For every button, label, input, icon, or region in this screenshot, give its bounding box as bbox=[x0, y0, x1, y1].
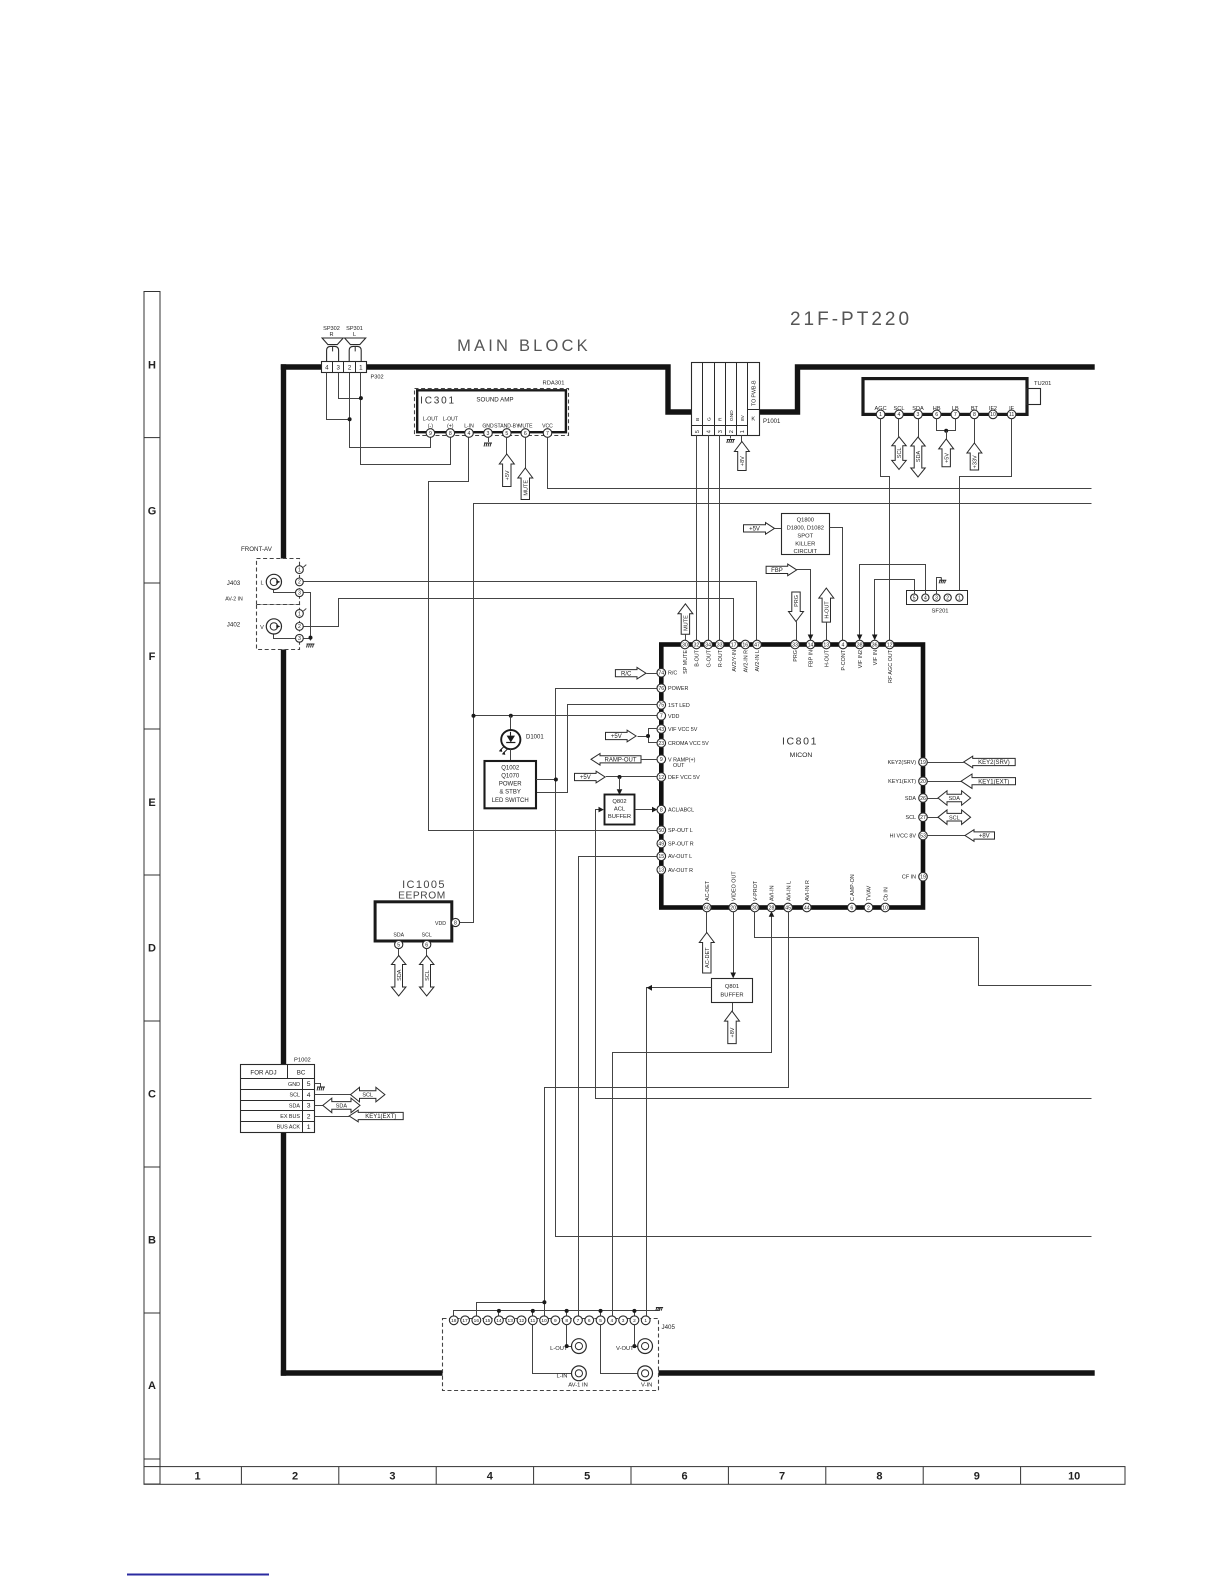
IC301 SOUND AMP bbox=[415, 389, 569, 436]
connector J405 bbox=[443, 1319, 659, 1391]
+8V arrow at Q801 bbox=[732, 1003, 734, 1011]
svg-text:J402: J402 bbox=[227, 622, 241, 629]
SCL arrow bbox=[927, 817, 938, 819]
IC801 pin 49 SP-OUT R bbox=[657, 839, 666, 848]
jack V-OUT bbox=[635, 1325, 638, 1347]
svg-text:6: 6 bbox=[935, 412, 938, 418]
wire J405 16-10 bbox=[477, 1303, 545, 1317]
wire to Q802 bbox=[619, 777, 621, 789]
svg-text:1: 1 bbox=[740, 430, 746, 433]
IC801 pin 53 HI VCC 8V bbox=[919, 831, 928, 840]
svg-text:1: 1 bbox=[958, 595, 961, 601]
IC801 pin 13 H-OUT bbox=[822, 640, 831, 649]
wire VIDEO OUT to Q801 bbox=[733, 912, 735, 973]
TU201 pin 1 AGC bbox=[876, 410, 885, 419]
svg-text:E: E bbox=[148, 797, 155, 809]
svg-text:9: 9 bbox=[554, 1318, 557, 1324]
svg-text:5: 5 bbox=[307, 1081, 311, 1088]
wire +B bus to IC1005 VDD bbox=[460, 504, 1092, 923]
svg-text:FBP IN: FBP IN bbox=[809, 650, 815, 667]
wire IC801 1ST LED to Q1002 bbox=[537, 705, 657, 793]
connector P302 bbox=[322, 362, 367, 373]
svg-text:+8V: +8V bbox=[740, 456, 746, 466]
ground P1001-2 bbox=[730, 435, 732, 438]
SDA arrow at TU201 bbox=[918, 419, 920, 437]
svg-text:BUFFER: BUFFER bbox=[720, 993, 743, 999]
IC801 pin 9 V RAMP(+) bbox=[657, 755, 666, 764]
svg-text:12: 12 bbox=[519, 1318, 525, 1324]
svg-text:SCL: SCL bbox=[949, 815, 960, 821]
H-OUT arrow bbox=[819, 588, 834, 622]
svg-text:POWER: POWER bbox=[668, 686, 688, 692]
IC801 pin 20 KEY1(EXT) bbox=[919, 777, 928, 786]
svg-text:4: 4 bbox=[842, 642, 845, 648]
spot killer circuit Q1800 bbox=[782, 514, 830, 555]
wire J402 shield bbox=[274, 635, 296, 639]
J405 pin 5 bbox=[596, 1316, 605, 1325]
IC301 pin 3 bbox=[484, 429, 493, 438]
buffer Q802 bbox=[605, 795, 635, 825]
+8V arrow at HI VCC bbox=[927, 835, 965, 837]
svg-text:33: 33 bbox=[717, 642, 723, 648]
svg-text:2: 2 bbox=[348, 365, 352, 372]
svg-text:4: 4 bbox=[487, 1471, 494, 1483]
jack L-OUT bbox=[567, 1325, 572, 1347]
svg-text:11: 11 bbox=[530, 1318, 535, 1324]
svg-text:SCL: SCL bbox=[290, 1093, 301, 1099]
svg-text:AV-1 IN: AV-1 IN bbox=[568, 1383, 588, 1389]
FBP arrow bbox=[766, 564, 797, 576]
svg-text:PRG: PRG bbox=[793, 650, 799, 662]
wire TU201 AGC to IC801 RF AGC OUT bbox=[881, 419, 890, 641]
IC801 pin 8 ACL/ABCL bbox=[657, 805, 666, 814]
svg-text:+8V: +8V bbox=[730, 1027, 736, 1037]
svg-text:+8V: +8V bbox=[979, 834, 990, 840]
IC301 pin 9 bbox=[426, 429, 435, 438]
svg-text:BUS ACK: BUS ACK bbox=[277, 1125, 301, 1131]
LED D1001 bbox=[510, 716, 512, 730]
svg-text:SDA: SDA bbox=[289, 1103, 300, 1109]
IC801 pin 28 AVI-IN bbox=[767, 903, 776, 912]
svg-text:6: 6 bbox=[588, 1318, 591, 1324]
wire J403-2 to IC801 AV2-IN L bbox=[304, 582, 757, 641]
wire P1001-4 to G-OUT bbox=[708, 435, 710, 640]
wire SF201-3 to ground bbox=[937, 578, 942, 594]
svg-text:1: 1 bbox=[359, 365, 363, 372]
svg-text:34: 34 bbox=[705, 642, 711, 648]
svg-text:SCL: SCL bbox=[906, 815, 917, 821]
svg-text:D: D bbox=[148, 943, 156, 955]
svg-text:SCL: SCL bbox=[422, 933, 432, 939]
svg-text:+5V: +5V bbox=[611, 734, 622, 740]
svg-text:R: R bbox=[718, 417, 724, 421]
svg-text:L: L bbox=[260, 581, 263, 587]
svg-text:MUTE: MUTE bbox=[523, 480, 529, 496]
svg-text:ACL: ACL bbox=[614, 807, 626, 813]
svg-text:16: 16 bbox=[742, 642, 748, 648]
svg-text:B-OUT: B-OUT bbox=[695, 649, 701, 666]
svg-text:SP MUTE: SP MUTE bbox=[683, 650, 689, 674]
svg-text:5: 5 bbox=[584, 1471, 590, 1483]
IC801 pin 16 AV2-IN R bbox=[741, 640, 750, 649]
wire H-OUT arrow to pin bbox=[826, 622, 828, 640]
svg-text:H-OUT: H-OUT bbox=[824, 601, 830, 619]
svg-text:12: 12 bbox=[887, 642, 893, 648]
arrowhead VIF IN bbox=[872, 635, 878, 641]
J405 pin 14 bbox=[495, 1316, 504, 1325]
svg-text:44: 44 bbox=[804, 905, 810, 911]
svg-text:10: 10 bbox=[990, 412, 996, 418]
junction FRONT-AV ground bbox=[309, 636, 313, 640]
junction VDD bus bbox=[472, 714, 476, 718]
svg-text:2: 2 bbox=[729, 430, 735, 433]
svg-text:36: 36 bbox=[872, 642, 878, 648]
SF201 pin 2 bbox=[944, 594, 951, 601]
svg-text:10: 10 bbox=[1068, 1471, 1080, 1483]
svg-text:16: 16 bbox=[474, 1318, 480, 1324]
svg-text:R/C: R/C bbox=[668, 671, 677, 677]
svg-text:2: 2 bbox=[292, 1471, 298, 1483]
J405 ground bus bbox=[454, 1311, 660, 1317]
TU201 pin 6 HB bbox=[932, 410, 941, 419]
svg-text:17: 17 bbox=[462, 1318, 468, 1324]
svg-text:3: 3 bbox=[298, 591, 301, 597]
svg-text:10: 10 bbox=[541, 1318, 547, 1324]
svg-text:32: 32 bbox=[694, 642, 700, 648]
KEY2(SRV) arrow bbox=[927, 762, 963, 764]
SF201 pin 1 bbox=[956, 594, 963, 601]
+33V arrow at TU201 BT bbox=[974, 419, 976, 443]
svg-text:H: H bbox=[148, 360, 156, 372]
+5V arrow at VIF VCC bbox=[606, 730, 637, 742]
IC801 pin 33 PRG bbox=[791, 640, 800, 649]
svg-text:L-IN: L-IN bbox=[557, 1374, 568, 1380]
svg-text:+5V: +5V bbox=[505, 470, 511, 480]
svg-text:AVI-IN R: AVI-IN R bbox=[805, 880, 811, 901]
KEY1(EXT) arrow bbox=[927, 781, 961, 783]
IC801 pin 47 AV2-IN L bbox=[753, 640, 762, 649]
wire TU201 HB/LB +5V bbox=[937, 419, 956, 431]
IC801 pin 32 B-OUT bbox=[692, 640, 701, 649]
svg-text:9: 9 bbox=[429, 431, 432, 437]
svg-text:13: 13 bbox=[823, 642, 829, 648]
svg-text:45: 45 bbox=[785, 905, 791, 911]
wire SF201-5 to VIF IN bbox=[875, 580, 915, 635]
connector J403 AV-2 IN bbox=[257, 559, 300, 605]
arrowhead VIF IN2 bbox=[857, 635, 863, 641]
svg-text:2: 2 bbox=[867, 905, 870, 911]
svg-text:POWER: POWER bbox=[499, 782, 522, 788]
svg-text:Q802: Q802 bbox=[612, 799, 626, 805]
J405 pin 18 bbox=[449, 1316, 458, 1325]
wire P302-1 to IC301 pin8 bbox=[361, 373, 451, 465]
svg-text:+33V: +33V bbox=[973, 455, 979, 468]
svg-text:EEPROM: EEPROM bbox=[398, 891, 446, 902]
svg-text:19: 19 bbox=[920, 760, 926, 766]
svg-text:MAIN BLOCK: MAIN BLOCK bbox=[457, 337, 591, 355]
SCL arrow at P1002 bbox=[315, 1094, 351, 1096]
row ruler (H..A) bbox=[144, 292, 160, 1485]
svg-text:10: 10 bbox=[882, 905, 888, 911]
svg-text:ACL/ABCL: ACL/ABCL bbox=[668, 808, 694, 814]
svg-text:5: 5 bbox=[695, 430, 701, 433]
svg-text:3: 3 bbox=[718, 430, 724, 433]
svg-text:G: G bbox=[707, 417, 713, 421]
svg-text:L-OUT: L-OUT bbox=[550, 1346, 568, 1352]
J405 pin 2 bbox=[630, 1316, 639, 1325]
svg-text:AV-OUT R: AV-OUT R bbox=[668, 868, 693, 874]
svg-text:BUFFER: BUFFER bbox=[608, 814, 631, 820]
svg-text:4: 4 bbox=[325, 365, 329, 372]
IC301 pin 5 bbox=[503, 429, 512, 438]
svg-text:1: 1 bbox=[298, 611, 301, 617]
wire IC301 VCC bus bbox=[548, 438, 1092, 489]
svg-text:1: 1 bbox=[195, 1471, 201, 1483]
svg-text:HI VCC 8V: HI VCC 8V bbox=[890, 834, 917, 840]
IC801 pin 12 DEF VCC 5V bbox=[657, 773, 666, 782]
IC1005 pin 6 SCL bbox=[423, 940, 431, 948]
KEY1(EXT) arrow at P1002 bbox=[315, 1116, 350, 1118]
svg-text:C AMP-ON: C AMP-ON bbox=[850, 874, 856, 901]
SF201 pin 5 bbox=[911, 594, 918, 601]
svg-text:8: 8 bbox=[565, 1318, 568, 1324]
junction P302 2-4 bbox=[348, 417, 352, 421]
IC801 pin 76 POWER bbox=[657, 684, 666, 693]
svg-text:VIF IN: VIF IN bbox=[873, 650, 879, 665]
svg-text:53: 53 bbox=[920, 833, 926, 839]
svg-text:B: B bbox=[695, 418, 701, 421]
svg-text:D1800, D1082: D1800, D1082 bbox=[787, 526, 824, 532]
R/C arrow bbox=[615, 667, 646, 679]
svg-text:1: 1 bbox=[298, 567, 301, 573]
svg-text:SF201: SF201 bbox=[931, 609, 948, 615]
IC801 pin 30 SP MUTE bbox=[681, 640, 690, 649]
svg-text:& STBY: & STBY bbox=[500, 790, 521, 796]
svg-text:1: 1 bbox=[644, 1318, 647, 1324]
svg-text:Q801: Q801 bbox=[725, 984, 739, 990]
wire P1001-5 to B-OUT bbox=[696, 435, 698, 640]
svg-text:6: 6 bbox=[425, 942, 428, 948]
svg-text:13: 13 bbox=[508, 1318, 514, 1324]
svg-text:MUTE: MUTE bbox=[684, 615, 690, 631]
wire IC301 L-IN to IC801 SP-OUT L bbox=[429, 438, 659, 831]
wire Q802 out to ACL/ABCL bbox=[635, 809, 652, 811]
SDA arrow at P1002 bbox=[315, 1105, 323, 1107]
svg-text:J405: J405 bbox=[662, 1324, 676, 1331]
IC801 pin 45 AVI-IN L bbox=[784, 903, 793, 912]
svg-text:23: 23 bbox=[658, 741, 664, 747]
svg-text:PRG: PRG bbox=[794, 595, 800, 607]
IC801 pin 30 V-PROT bbox=[751, 903, 760, 912]
PRG arrow bbox=[789, 592, 804, 622]
+5V arrow at IC301 STAND-BY bbox=[506, 437, 508, 454]
svg-text:SCL: SCL bbox=[425, 970, 431, 981]
svg-text:15: 15 bbox=[658, 854, 664, 860]
svg-text:RF AGC OUT: RF AGC OUT bbox=[888, 649, 894, 683]
IC1005 pin 5 SDA bbox=[395, 940, 403, 948]
svg-text:SDA: SDA bbox=[905, 796, 916, 802]
svg-text:76: 76 bbox=[658, 686, 664, 692]
svg-text:8: 8 bbox=[876, 1471, 882, 1483]
svg-text:D1001: D1001 bbox=[526, 735, 544, 741]
wire TU201 IF to SF201-1 bbox=[960, 419, 1012, 594]
svg-text:J403: J403 bbox=[227, 580, 241, 587]
svg-text:GND: GND bbox=[288, 1082, 300, 1088]
svg-text:2: 2 bbox=[946, 595, 949, 601]
svg-text:9: 9 bbox=[974, 1471, 980, 1483]
svg-text:KEY1(EXT): KEY1(EXT) bbox=[978, 779, 1009, 785]
svg-text:8: 8 bbox=[449, 431, 452, 437]
svg-text:4: 4 bbox=[307, 1092, 311, 1099]
svg-text:SPOT: SPOT bbox=[797, 534, 813, 540]
svg-text:+5V: +5V bbox=[749, 527, 760, 533]
wire P302-4 to join bbox=[327, 373, 350, 420]
wire AV-OUT L to J405-7 bbox=[579, 857, 657, 1317]
TU201 pin 11 IF bbox=[1007, 410, 1016, 419]
svg-text:5: 5 bbox=[397, 942, 400, 948]
svg-text:60: 60 bbox=[704, 905, 710, 911]
svg-text:VDD: VDD bbox=[668, 714, 679, 720]
svg-text:AV-2 IN: AV-2 IN bbox=[225, 597, 243, 603]
J405 pin 17 bbox=[461, 1316, 470, 1325]
J405 pin 8 bbox=[562, 1316, 571, 1325]
wire P302-2 to IC301 pin9 bbox=[350, 373, 431, 448]
svg-text:L: L bbox=[353, 332, 356, 338]
svg-text:2: 2 bbox=[298, 624, 301, 630]
svg-text:4: 4 bbox=[924, 595, 927, 601]
svg-text:3: 3 bbox=[389, 1471, 395, 1483]
svg-text:AVI-IN L: AVI-IN L bbox=[786, 881, 792, 901]
wire FBP to FBP IN bbox=[797, 570, 811, 641]
svg-text:5: 5 bbox=[599, 1318, 602, 1324]
svg-text:TU201: TU201 bbox=[1034, 381, 1051, 387]
wire Q801 out to J405-1 bbox=[647, 988, 712, 1317]
svg-text:L-OUT: L-OUT bbox=[423, 417, 438, 423]
MUTE arrow at IC301 MUTE bbox=[525, 437, 527, 468]
svg-text:V-PROT: V-PROT bbox=[753, 880, 759, 901]
IC801 pin 43 VIF VCC 5V bbox=[657, 725, 666, 734]
TU201 pin 10 IF2 bbox=[989, 410, 998, 419]
svg-text:50: 50 bbox=[658, 828, 664, 834]
svg-text:2: 2 bbox=[298, 580, 301, 586]
svg-text:AV-OUT L: AV-OUT L bbox=[668, 854, 692, 860]
svg-text:FOR ADJ: FOR ADJ bbox=[250, 1070, 276, 1077]
power & stby led switch Q1002 bbox=[485, 761, 537, 808]
svg-text:18: 18 bbox=[451, 1318, 457, 1324]
J405 pin 1 bbox=[641, 1316, 650, 1325]
svg-text:IC301: IC301 bbox=[420, 396, 456, 407]
svg-text:TO PWB-B: TO PWB-B bbox=[752, 380, 758, 406]
IC801 pin 14 FBP IN bbox=[806, 640, 815, 649]
IC801 pin 12 RF AGC OUT bbox=[885, 640, 894, 649]
svg-text:7: 7 bbox=[660, 714, 663, 720]
svg-text:+5V: +5V bbox=[944, 453, 950, 463]
IC801 pin 34 G-OUT bbox=[704, 640, 713, 649]
wire Q1002 out to POWER net bbox=[536, 779, 556, 781]
svg-text:BC: BC bbox=[297, 1070, 306, 1077]
svg-text:19: 19 bbox=[920, 875, 926, 881]
svg-text:LED SWITCH: LED SWITCH bbox=[492, 798, 529, 804]
svg-text:SCL: SCL bbox=[897, 448, 903, 459]
ground at J405 bus bbox=[656, 1308, 663, 1311]
svg-text:KEY2(SRV): KEY2(SRV) bbox=[978, 760, 1010, 766]
J405 pin 11 bbox=[528, 1316, 537, 1325]
svg-text:F: F bbox=[149, 651, 156, 663]
svg-text:30: 30 bbox=[682, 642, 688, 648]
IC301 pin 8 bbox=[446, 429, 455, 438]
svg-text:12: 12 bbox=[658, 775, 664, 781]
+8V arrow at P1001-1 bbox=[741, 435, 743, 441]
IC801 pin 50 SP-OUT L bbox=[657, 826, 666, 835]
svg-text:3: 3 bbox=[307, 1103, 311, 1110]
+5V arrow at spot killer bbox=[744, 523, 775, 535]
J405 pin 6 bbox=[585, 1316, 594, 1325]
svg-text:3: 3 bbox=[298, 636, 301, 642]
jack V-IN bbox=[601, 1325, 638, 1374]
svg-text:6: 6 bbox=[524, 431, 527, 437]
tuner TU201 bbox=[863, 379, 1027, 415]
wire P1001-3 to R-OUT bbox=[719, 435, 721, 640]
RAMP-OUT arrow bbox=[591, 754, 641, 766]
svg-text:G-OUT: G-OUT bbox=[706, 649, 712, 667]
SCL arrow at TU201 bbox=[898, 419, 900, 437]
junction VDD D1001 bbox=[509, 714, 513, 718]
svg-text:4: 4 bbox=[898, 412, 901, 418]
SCL arrow at IC1005 bbox=[426, 949, 428, 956]
svg-text:IC801: IC801 bbox=[782, 736, 818, 748]
wire P302-3 to join bbox=[339, 373, 361, 399]
svg-text:3: 3 bbox=[622, 1318, 625, 1324]
connector J402 AV-2 IN video bbox=[257, 605, 300, 650]
SDA arrow bbox=[927, 798, 938, 800]
svg-text:9: 9 bbox=[660, 757, 663, 763]
svg-text:P-CONT: P-CONT bbox=[841, 649, 847, 670]
svg-text:R/C: R/C bbox=[621, 671, 632, 677]
MUTE arrow at IC801 SP MUTE bbox=[678, 604, 693, 634]
svg-text:4: 4 bbox=[468, 431, 471, 437]
TU201 pin 4 SCL bbox=[895, 410, 904, 419]
svg-text:20: 20 bbox=[920, 779, 926, 785]
svg-text:SP-OUT L: SP-OUT L bbox=[668, 828, 693, 834]
IC801 pin 4 P-CONT bbox=[839, 640, 848, 649]
svg-text:SDA: SDA bbox=[397, 969, 403, 981]
svg-text:EX BUS: EX BUS bbox=[280, 1114, 300, 1120]
IC801 pin 44 AVI-IN R bbox=[803, 903, 812, 912]
svg-text:CIRCUIT: CIRCUIT bbox=[794, 549, 818, 555]
svg-text:R-OUT: R-OUT bbox=[718, 649, 724, 667]
svg-text:5: 5 bbox=[505, 431, 508, 437]
IC801 pin 38 VIF IN2 bbox=[855, 640, 864, 649]
svg-text:L-OUT: L-OUT bbox=[443, 417, 458, 423]
svg-text:VIF IN2: VIF IN2 bbox=[858, 650, 864, 668]
J405 pin 13 bbox=[506, 1316, 515, 1325]
IC1005 pin 8 VDD bbox=[451, 918, 459, 926]
svg-text:7: 7 bbox=[954, 412, 957, 418]
IC801 pin 36 VIF IN bbox=[870, 640, 879, 649]
svg-text:MICON: MICON bbox=[790, 752, 813, 759]
blue footer line bbox=[127, 1574, 269, 1576]
svg-text:CF IN: CF IN bbox=[902, 875, 916, 881]
J405 pin 12 bbox=[517, 1316, 526, 1325]
svg-text:3: 3 bbox=[487, 431, 490, 437]
svg-text:43: 43 bbox=[658, 727, 664, 733]
wire J402-3 to ground bbox=[304, 638, 311, 640]
svg-text:VIF VCC 5V: VIF VCC 5V bbox=[668, 727, 698, 733]
svg-text:FBP: FBP bbox=[771, 568, 783, 574]
svg-text:KEY1(EXT): KEY1(EXT) bbox=[365, 1114, 396, 1120]
IC801 pin 2 TV/AV bbox=[864, 903, 873, 912]
svg-text:TV/AV: TV/AV bbox=[867, 885, 873, 901]
